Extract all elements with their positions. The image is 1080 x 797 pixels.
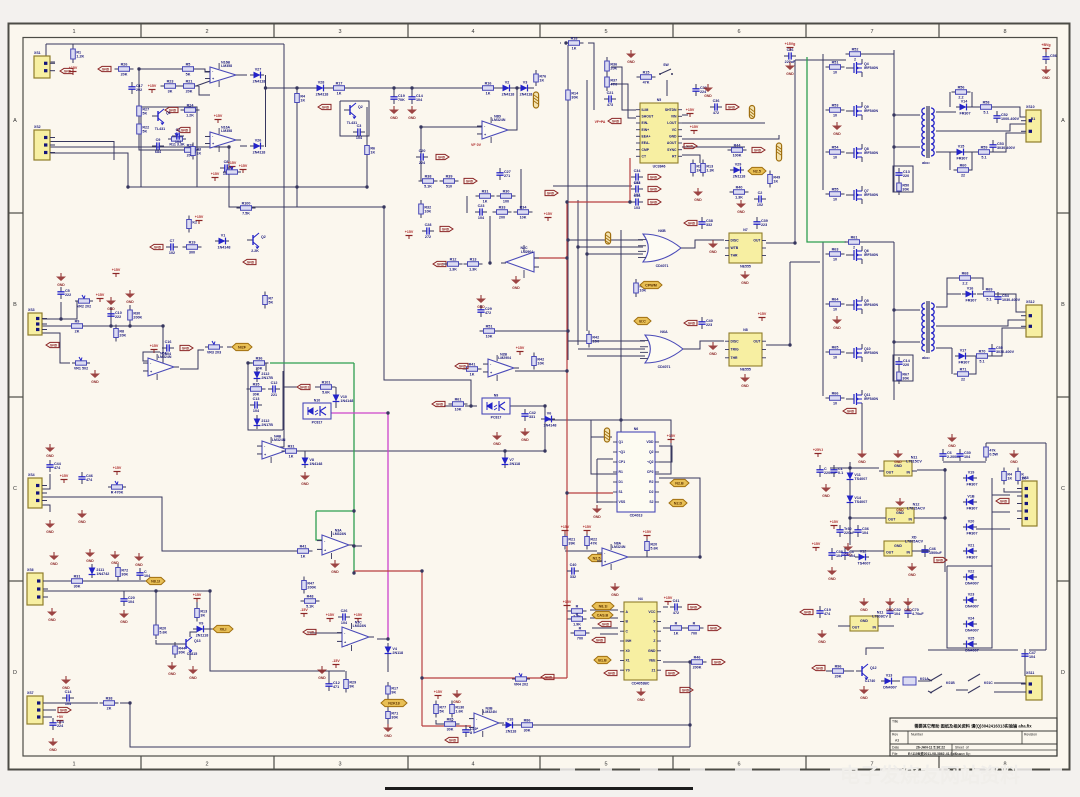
- power +15V uc vin: [686, 108, 695, 117]
- red wire x567: [566, 202, 568, 678]
- svg-text:10: 10: [833, 198, 837, 202]
- svg-text:EIN+: EIN+: [642, 128, 650, 132]
- svg-text:R96: R96: [835, 665, 842, 669]
- svg-text:5K: 5K: [142, 129, 147, 133]
- svg-text:C26: C26: [341, 609, 348, 613]
- gnd port q2: [318, 104, 331, 109]
- svg-text:IN: IN: [909, 517, 913, 521]
- zone tick left 3: [9, 580, 24, 582]
- power +15V cluster: [544, 212, 553, 221]
- wire nc out row: [503, 724, 690, 726]
- svg-text:EIN-: EIN-: [642, 121, 649, 125]
- capacitor C33: [631, 181, 643, 197]
- svg-text:INH: INH: [626, 639, 632, 643]
- wire reg2 out: [919, 517, 945, 519]
- wire n3c out: [377, 638, 388, 640]
- svg-text:GND: GND: [860, 696, 868, 700]
- wire uc out1: [682, 114, 688, 116]
- op-amp N3A: [317, 529, 354, 559]
- svg-text:GND: GND: [741, 384, 749, 388]
- svg-text:XS3: XS3: [28, 308, 35, 312]
- net label xs top: [748, 167, 766, 174]
- svg-text:XS4: XS4: [28, 473, 35, 477]
- wire gate2 in1: [568, 340, 645, 342]
- wire sec2 snub top: [973, 278, 983, 290]
- resistor R36g: [250, 357, 269, 371]
- capacitor ladder C: [250, 397, 262, 413]
- potentiometer VR1: [72, 357, 90, 370]
- svg-text:472: 472: [673, 611, 679, 615]
- svg-text:20K: 20K: [121, 73, 128, 77]
- red wire x422: [421, 571, 423, 726]
- svg-text:CPWM: CPWM: [645, 283, 657, 287]
- svg-text:V18: V18: [507, 717, 514, 721]
- svg-text:¬Q2: ¬Q2: [647, 460, 654, 464]
- zone tick left 2: [9, 396, 24, 398]
- diode V6: [541, 411, 556, 427]
- watermark breaking bottom border: [560, 768, 1062, 772]
- svg-text:102: 102: [757, 203, 763, 207]
- wire q12 up: [866, 648, 884, 655]
- analog gnd bridge1: [832, 122, 842, 136]
- svg-text:R18: R18: [571, 37, 578, 41]
- wire 555b out right: [766, 344, 790, 346]
- svg-text:GND: GND: [688, 221, 696, 225]
- analog gnd c19: [389, 106, 399, 120]
- svg-text:R2: R2: [649, 480, 653, 484]
- svg-text:GND: GND: [453, 700, 461, 704]
- svg-text:2.2K: 2.2K: [251, 249, 259, 253]
- wire top rail: [46, 43, 284, 45]
- svg-text:X0: X0: [626, 649, 630, 653]
- junction 8: [365, 185, 368, 188]
- snubber C14 box: [893, 355, 913, 381]
- svg-text:2N1118: 2N1118: [196, 633, 209, 637]
- zone tick top 6: [805, 24, 807, 38]
- svg-text:R17: R17: [336, 82, 343, 86]
- analog gnd 4013: [592, 505, 602, 519]
- wire xs3 to opamp: [148, 326, 163, 366]
- junction 13: [386, 637, 389, 640]
- power +15V 4013: [667, 434, 676, 443]
- svg-text:5K: 5K: [142, 111, 147, 115]
- relay contact K01B: [928, 674, 955, 693]
- power +15V reg3: [812, 542, 821, 551]
- junction 50: [109, 324, 112, 327]
- diode V25 chain7: [963, 616, 979, 632]
- svg-text:GND: GND: [754, 148, 762, 152]
- resistor R94: [1002, 468, 1013, 485]
- svg-text:1.3K: 1.3K: [706, 168, 714, 172]
- capacitor C36b: [631, 194, 643, 210]
- capacitor C46: [78, 472, 93, 484]
- svg-text:GND: GND: [611, 593, 619, 597]
- red wire y678: [422, 677, 567, 679]
- snubber C13 R50 box: [893, 166, 913, 192]
- wire xfmr2 sec top2: [977, 293, 981, 295]
- relay coil K01A: [903, 677, 929, 685]
- svg-text:1: 1: [72, 29, 75, 35]
- transistor Q13: [180, 637, 201, 653]
- or gate N6A: [640, 330, 689, 369]
- svg-text:R56: R56: [958, 86, 965, 90]
- svg-text:5K: 5K: [439, 709, 444, 713]
- svg-text:471: 471: [333, 685, 339, 689]
- diode V20u: [730, 162, 745, 178]
- analog gnd c5: [56, 273, 66, 287]
- junction 47: [154, 589, 157, 592]
- wire r ladder2: [387, 719, 389, 726]
- resistor R76: [534, 70, 546, 86]
- red wire y202: [567, 201, 630, 203]
- diode V1 1N4148: [215, 233, 230, 249]
- capacitor C21u: [604, 91, 616, 107]
- svg-text:R100: R100: [242, 202, 251, 206]
- resistor R61: [449, 398, 468, 412]
- svg-text:22: 22: [961, 174, 965, 178]
- svg-text:R71: R71: [960, 368, 967, 372]
- potentiometer VR3: [205, 341, 223, 354]
- diode V14 FR307: [956, 99, 971, 115]
- svg-text:GND: GND: [637, 698, 645, 702]
- wire gate2 in2: [578, 348, 645, 350]
- svg-text:-15V: -15V: [300, 608, 308, 612]
- resistor R52: [846, 48, 865, 62]
- analog gnd n3b top: [452, 690, 462, 704]
- svg-text:104: 104: [175, 140, 182, 144]
- capacitor C23: [475, 204, 487, 220]
- svg-text:R33: R33: [499, 206, 506, 210]
- analog gnd n14 up: [859, 598, 869, 612]
- svg-text:5.6K: 5.6K: [322, 391, 330, 395]
- wire cluster row2: [466, 196, 468, 213]
- svg-text:XS7: XS7: [27, 691, 34, 695]
- potentiometer VR4: [512, 673, 530, 686]
- wire xfmr1 sec top2: [968, 106, 982, 108]
- wire c47 col: [1024, 650, 1026, 676]
- mosfet Q9: [846, 102, 878, 120]
- svg-text:1N4148: 1N4148: [309, 462, 322, 466]
- wire v6 to 4013 frame: [545, 419, 591, 421]
- wire xs4 pin2: [42, 474, 50, 489]
- svg-text:GND: GND: [602, 622, 610, 626]
- magenta wire: [331, 413, 388, 639]
- resistor R87: [568, 605, 587, 619]
- power +15V c41: [664, 596, 673, 605]
- wire uc3846 left2: [611, 84, 636, 118]
- mosfet Q5: [846, 296, 878, 314]
- zone tick top 4: [539, 24, 541, 38]
- junction 30: [576, 245, 579, 248]
- power +15V vr2: [96, 293, 105, 302]
- power +25V: [813, 448, 823, 457]
- svg-text:GND: GND: [704, 94, 712, 98]
- junction 42: [943, 516, 946, 519]
- svg-text:C16: C16: [165, 340, 172, 344]
- wire n3c plus in: [345, 645, 347, 646]
- junction 11: [352, 544, 355, 547]
- resistor R22: [137, 120, 149, 138]
- switch SW1: [659, 63, 673, 75]
- svg-text:N9: N9: [494, 393, 499, 397]
- wire bundle x621: [620, 230, 622, 420]
- svg-text:LM324N: LM324N: [272, 438, 286, 442]
- wire sec2 snub: [947, 278, 957, 294]
- zone tick bottom 3: [407, 756, 409, 770]
- resistor R66m: [826, 392, 845, 406]
- svg-text:2N4118: 2N4118: [520, 92, 533, 96]
- svg-text:OUT: OUT: [753, 339, 761, 343]
- resistor R39: [440, 175, 459, 189]
- svg-text:N2.5: N2.5: [753, 169, 761, 173]
- svg-text:V25: V25: [968, 636, 975, 640]
- svg-text:R: R: [576, 613, 579, 617]
- svg-text:10K: 10K: [520, 216, 527, 220]
- connector XS3: [28, 308, 47, 335]
- svg-text:IRF540N: IRF540N: [864, 397, 878, 401]
- regulator N13 7805: [879, 536, 924, 556]
- potentiometer VR2: [75, 295, 93, 308]
- capacitor C36: [710, 99, 722, 115]
- svg-text:R31: R31: [74, 575, 81, 579]
- svg-text:GND: GND: [709, 250, 717, 254]
- svg-text:FR307: FR307: [958, 360, 969, 364]
- wire r20 col: [646, 551, 648, 557]
- wire long L x384: [252, 207, 471, 406]
- junction 49: [59, 317, 62, 320]
- diode V24 chain6: [963, 592, 979, 608]
- svg-text:C33: C33: [634, 181, 641, 185]
- resistor R35L: [247, 383, 266, 397]
- svg-text:332: 332: [570, 575, 576, 579]
- resistor R51b: [480, 325, 499, 339]
- svg-text:0.5W: 0.5W: [989, 452, 998, 456]
- wire xs4 out: [42, 497, 295, 551]
- svg-text:GND: GND: [1000, 499, 1008, 503]
- resistor R42c: [532, 353, 545, 370]
- transformer T1: [922, 106, 934, 165]
- svg-text:30K: 30K: [74, 585, 81, 589]
- junction 53: [698, 555, 701, 558]
- potentiometer R37u: [605, 73, 618, 91]
- svg-text:GND: GND: [521, 438, 529, 442]
- capacitor C12m: [325, 679, 339, 691]
- svg-text:GND: GND: [102, 67, 110, 71]
- analog gnd c10: [106, 297, 116, 311]
- svg-text:20K: 20K: [186, 90, 193, 94]
- svg-text:CD4071: CD4071: [656, 264, 669, 268]
- analog gnd xs6 c: [110, 551, 120, 565]
- wire xs2 pin3: [50, 153, 128, 187]
- svg-text:GND: GND: [710, 626, 718, 630]
- op-amp N4B: [257, 435, 293, 463]
- svg-text:30K: 30K: [902, 376, 909, 380]
- svg-text:LM358: LM358: [221, 129, 232, 133]
- svg-text:R85: R85: [447, 718, 454, 722]
- svg-text:File: File: [892, 752, 898, 756]
- wire uc sync: [682, 146, 745, 148]
- svg-text:R53: R53: [832, 104, 839, 108]
- power +15V pot: [113, 466, 122, 475]
- svg-text:GND: GND: [858, 460, 866, 464]
- analog gnd 555b2: [708, 342, 718, 356]
- op-amp N2C (mirrored): [501, 245, 539, 278]
- wire y187 long: [128, 186, 367, 188]
- zone tick top 3: [407, 24, 409, 38]
- svg-text:GND1: GND1: [300, 385, 310, 389]
- svg-text:V6: V6: [547, 411, 552, 415]
- op-amp N2B: [483, 353, 519, 381]
- capacitor C7 mid: [166, 239, 178, 255]
- svg-text:GND: GND: [593, 515, 601, 519]
- svg-text:R48: R48: [307, 595, 314, 599]
- wire main mid column x139: [139, 69, 199, 150]
- resistor R58: [977, 101, 996, 115]
- resistor R42b: [587, 331, 600, 348]
- svg-text:GND: GND: [741, 281, 749, 285]
- svg-text:ILIM: ILIM: [642, 108, 649, 112]
- svg-text:3: 3: [338, 762, 341, 768]
- analog gnd xs7 up: [61, 676, 71, 690]
- svg-text:5K: 5K: [268, 300, 273, 304]
- diode V21 chain3: [963, 519, 978, 535]
- svg-text:GND: GND: [804, 610, 812, 614]
- wire sec2 snub2: [951, 348, 953, 374]
- diode V9: [193, 621, 208, 637]
- wire c20b col: [123, 591, 125, 596]
- relay contact K01C: [968, 674, 993, 693]
- svg-text:GND: GND: [714, 660, 722, 664]
- svg-text:220uF: 220uF: [844, 531, 855, 535]
- svg-text:C2: C2: [758, 191, 763, 195]
- svg-text:+15V: +15V: [214, 114, 223, 118]
- svg-text:XS1: XS1: [34, 51, 41, 55]
- svg-text:+15V: +15V: [228, 161, 237, 165]
- resistor R4: [295, 90, 306, 107]
- svg-text:LM324N: LM324N: [353, 624, 367, 628]
- wire drive top: [795, 59, 846, 61]
- svg-text:OUT: OUT: [753, 239, 761, 243]
- resistor R41b: [463, 363, 482, 377]
- connector XS8: [1017, 476, 1037, 526]
- gnd port r30: [545, 190, 558, 195]
- wire xs7 pin2: [43, 709, 56, 711]
- wire relay contacts rail: [928, 649, 1018, 651]
- svg-text:GND: GND: [886, 608, 894, 612]
- svg-text:R 470K: R 470K: [111, 490, 124, 494]
- regulator N11 7815: [879, 456, 922, 476]
- analog gnd n2c: [511, 276, 521, 290]
- svg-text:NI2F: NI2F: [238, 345, 247, 349]
- svg-text:abc•: abc•: [922, 356, 930, 360]
- resistor R47: [302, 577, 317, 594]
- svg-text:R65: R65: [832, 346, 839, 350]
- svg-text:1N4742: 1N4742: [96, 572, 109, 576]
- svg-text:N6B: N6B: [658, 229, 666, 233]
- svg-text:R41: R41: [469, 363, 476, 367]
- wire xfmr1 ct: [936, 124, 1026, 131]
- svg-text:1K: 1K: [301, 555, 306, 559]
- svg-text:R: R: [579, 627, 582, 631]
- diode V7: [502, 454, 520, 468]
- wire 4053 x out: [663, 627, 668, 629]
- transistor Q12: [856, 664, 877, 680]
- svg-text:R38: R38: [425, 175, 432, 179]
- svg-text:2N4118: 2N4118: [502, 92, 515, 96]
- junction 43: [208, 589, 211, 592]
- svg-text:XS11: XS11: [1026, 671, 1034, 675]
- svg-text:DN4007: DN4007: [965, 604, 979, 608]
- svg-text:VDD: VDD: [646, 440, 654, 444]
- svg-text:C: C: [1061, 486, 1065, 492]
- wire gate1 out: [687, 240, 724, 248]
- svg-text:684: 684: [155, 150, 162, 154]
- wire xfmr1 sec bot2: [966, 133, 1026, 152]
- resistor R68: [956, 272, 975, 286]
- svg-text:202: 202: [136, 88, 142, 92]
- wire opto n9 out: [510, 405, 545, 407]
- svg-text:1K: 1K: [337, 92, 342, 96]
- analog gnd c30: [703, 84, 713, 98]
- svg-text:GND: GND: [688, 321, 696, 325]
- wire n16a out: [240, 145, 247, 147]
- gnd port vfpa: [608, 118, 621, 123]
- svg-text:1N4148: 1N4148: [340, 399, 353, 403]
- resistor R31x: [68, 575, 87, 589]
- junction 16: [420, 569, 423, 572]
- svg-text:VCC: VCC: [648, 610, 656, 614]
- op-amp N16B: [205, 61, 241, 87]
- svg-text:GND: GND: [331, 570, 339, 574]
- gnd port 4053 in: [598, 621, 611, 626]
- analog gnd c14: [407, 106, 417, 120]
- svg-text:Q2: Q2: [649, 450, 654, 454]
- svg-text:OUT: OUT: [886, 550, 894, 554]
- svg-text:R55: R55: [832, 188, 839, 192]
- svg-text:Rev: Rev: [892, 733, 898, 737]
- svg-text:472: 472: [485, 311, 491, 315]
- svg-text:TL431: TL431: [155, 127, 165, 131]
- wire 4053 vcc: [663, 606, 668, 608]
- junction 39: [848, 466, 851, 469]
- resistor R19: [183, 241, 202, 255]
- gnd port 4053 gnd: [604, 670, 617, 675]
- wire y186 right seg: [553, 185, 632, 187]
- svg-text:30K: 30K: [121, 572, 128, 576]
- power +15V 555b: [758, 312, 767, 321]
- svg-text:30K: 30K: [178, 650, 185, 654]
- svg-text:R31: R31: [482, 190, 489, 194]
- svg-text:GND: GND: [247, 260, 255, 264]
- svg-text:CD4071: CD4071: [658, 365, 671, 369]
- wire v7 down: [504, 451, 506, 455]
- capacitor C32u: [754, 191, 766, 207]
- resistor R15u: [637, 71, 656, 85]
- svg-text:2N4118: 2N4118: [253, 79, 266, 83]
- analog gnd xs4: [45, 520, 55, 534]
- svg-text:104: 104: [964, 455, 971, 459]
- svg-text:474: 474: [86, 478, 93, 482]
- wire n14 in: [883, 625, 894, 627]
- resistor R46: [688, 656, 707, 670]
- svg-text:CD4053BC: CD4053BC: [632, 682, 650, 686]
- svg-text:GND: GND: [307, 630, 315, 634]
- analog gnd c42: [520, 428, 530, 442]
- svg-text:GND: GND: [322, 105, 330, 109]
- gnd port 4053 right low: [680, 687, 693, 692]
- svg-text:GND: GND: [737, 210, 745, 214]
- svg-text:222: 222: [115, 315, 121, 319]
